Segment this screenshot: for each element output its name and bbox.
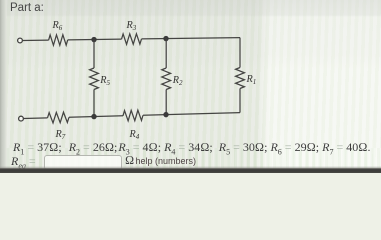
wire branch R5 upper [93, 40, 95, 68]
wire bottom rail left [24, 117, 48, 120]
Req line [11, 154, 36, 170]
node top junction 2 [163, 36, 168, 41]
resistor R7 [48, 112, 70, 123]
wire top rail left [23, 39, 49, 41]
svg-text:R6: R6 [52, 20, 63, 32]
resistor R1 [236, 68, 245, 89]
wire top rail right [142, 38, 241, 39]
svg-text:R1: R1 [246, 74, 257, 86]
wire right edge upper [239, 38, 241, 68]
resistor R3 [122, 34, 142, 45]
resistor R6 [49, 35, 68, 46]
help link [136, 156, 197, 166]
terminal bottom-left [19, 116, 24, 121]
wire bottom rail mid [69, 116, 123, 117]
node top junction 1 [91, 37, 96, 42]
wire right edge lower [239, 89, 241, 113]
resistor R2 [162, 68, 171, 90]
svg-text:R2: R2 [172, 75, 183, 87]
wire branch R2 lower [165, 90, 167, 115]
wire top rail mid1 [68, 38, 122, 41]
omega unit [125, 153, 134, 168]
svg-text:R5: R5 [99, 75, 110, 87]
node bottom junction 1 [91, 114, 96, 119]
wire branch R2 upper [165, 39, 167, 68]
values line [13, 140, 370, 156]
node bottom junction 2 [163, 112, 168, 117]
terminal top-left [18, 38, 23, 43]
wire branch R5 lower [93, 90, 95, 117]
resistor R5 [90, 68, 99, 90]
resistor R4 [123, 110, 143, 121]
answer input box [44, 155, 122, 170]
wire bottom rail right [143, 113, 240, 116]
svg-text:R3: R3 [126, 20, 137, 32]
